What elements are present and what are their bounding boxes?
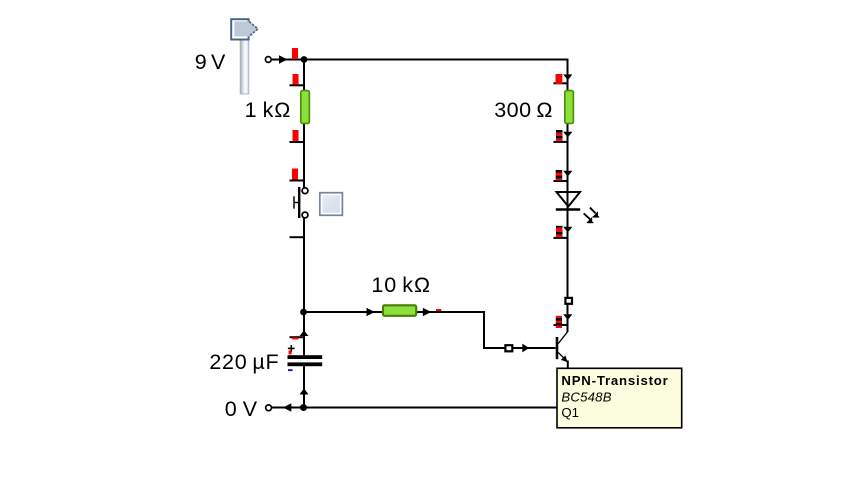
svg-text:1 kΩ: 1 kΩ [245, 98, 292, 122]
svg-text:300 Ω: 300 Ω [494, 98, 553, 122]
svg-text:10 kΩ: 10 kΩ [371, 273, 431, 297]
svg-text:Q1: Q1 [561, 405, 579, 420]
svg-text:BC548B: BC548B [561, 389, 611, 404]
svg-text:0 V: 0 V [225, 397, 258, 421]
svg-text:9 V: 9 V [195, 50, 226, 74]
svg-text:220 µF: 220 µF [209, 350, 279, 374]
svg-text:NPN-Transistor: NPN-Transistor [561, 373, 668, 388]
